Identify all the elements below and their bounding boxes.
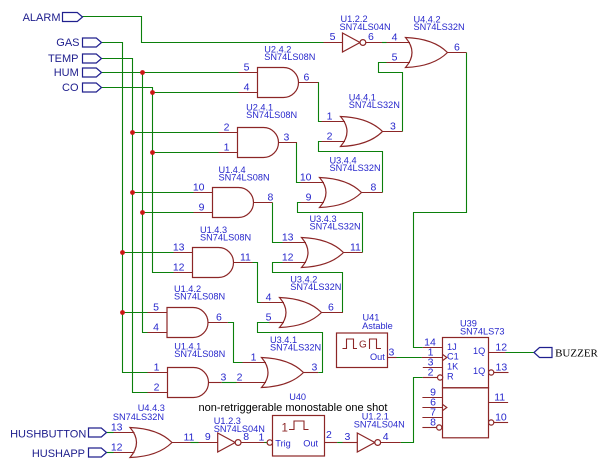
svg-text:U40: U40 (289, 392, 306, 402)
svg-text:13: 13 (496, 362, 508, 374)
svg-text:2: 2 (428, 366, 434, 378)
svg-text:11: 11 (494, 392, 505, 404)
svg-text:6: 6 (304, 72, 310, 84)
svg-text:SN74LS32N: SN74LS32N (290, 282, 341, 292)
svg-text:1: 1 (154, 362, 160, 374)
svg-text:4: 4 (266, 292, 272, 304)
svg-text:SN74LS08N: SN74LS08N (246, 110, 297, 120)
svg-text:BUZZER: BUZZER (555, 348, 598, 360)
svg-text:3: 3 (344, 431, 350, 443)
svg-text:Out: Out (303, 439, 318, 449)
svg-text:non-retriggerable monostable o: non-retriggerable monostable one shot (199, 402, 388, 414)
svg-text:R: R (447, 372, 454, 382)
svg-text:6: 6 (368, 31, 374, 43)
svg-text:5: 5 (330, 31, 336, 43)
svg-text:C1: C1 (447, 352, 459, 362)
svg-text:11: 11 (184, 432, 195, 444)
svg-text:3: 3 (284, 132, 290, 144)
svg-text:SN74LS08N: SN74LS08N (264, 52, 315, 62)
svg-text:12: 12 (282, 252, 294, 264)
svg-text:HUSHBUTTON: HUSHBUTTON (10, 429, 86, 441)
svg-text:8: 8 (430, 417, 436, 429)
svg-text:12: 12 (495, 342, 507, 354)
svg-text:8: 8 (268, 192, 274, 204)
svg-text:Trig: Trig (275, 439, 290, 449)
svg-text:5: 5 (244, 62, 250, 74)
svg-text:2: 2 (326, 429, 332, 441)
svg-text:SN74LS32N: SN74LS32N (270, 342, 321, 352)
svg-text:3: 3 (389, 347, 395, 359)
svg-text:9: 9 (306, 192, 312, 204)
svg-text:4: 4 (153, 322, 159, 334)
svg-text:G: G (359, 340, 367, 351)
svg-text:1: 1 (258, 432, 264, 444)
svg-text:8: 8 (371, 182, 377, 194)
svg-text:2: 2 (237, 372, 243, 384)
svg-text:2: 2 (154, 382, 160, 394)
svg-text:1: 1 (327, 111, 333, 123)
svg-text:SN74LS32N: SN74LS32N (310, 221, 361, 231)
svg-text:2: 2 (327, 131, 333, 143)
svg-text:4: 4 (392, 32, 398, 44)
svg-text:12: 12 (173, 262, 185, 274)
svg-text:11: 11 (350, 242, 361, 254)
svg-text:2: 2 (224, 122, 230, 134)
svg-text:SN74LS32N: SN74LS32N (349, 100, 400, 110)
svg-text:13: 13 (111, 422, 123, 434)
svg-text:SN74LS08N: SN74LS08N (174, 291, 225, 301)
svg-text:Astable: Astable (362, 321, 393, 331)
svg-text:6: 6 (216, 312, 222, 324)
svg-text:10: 10 (193, 182, 205, 194)
svg-text:CO: CO (62, 82, 79, 94)
svg-text:11: 11 (240, 252, 251, 264)
svg-text:SN74LS08N: SN74LS08N (174, 349, 225, 359)
svg-text:9: 9 (205, 431, 211, 443)
svg-text:4: 4 (244, 82, 250, 94)
svg-text:SN74LS32N: SN74LS32N (113, 412, 164, 422)
svg-text:SN74LS08N: SN74LS08N (200, 232, 251, 242)
svg-text:TEMP: TEMP (48, 53, 79, 65)
svg-text:3: 3 (390, 121, 396, 133)
svg-text:9: 9 (199, 202, 205, 214)
svg-text:1: 1 (251, 352, 257, 364)
svg-text:Out: Out (370, 352, 385, 362)
svg-text:1Q: 1Q (473, 346, 485, 356)
svg-text:SN74LS08N: SN74LS08N (219, 172, 270, 182)
svg-text:6: 6 (454, 42, 460, 54)
svg-text:5: 5 (392, 52, 398, 64)
svg-text:5: 5 (266, 312, 272, 324)
svg-text:ALARM: ALARM (23, 12, 61, 24)
svg-text:GAS: GAS (56, 37, 79, 49)
svg-text:13: 13 (282, 232, 294, 244)
svg-text:HUM: HUM (54, 67, 79, 79)
svg-text:6: 6 (328, 302, 334, 314)
svg-text:3: 3 (312, 362, 318, 374)
svg-text:SN74LS32N: SN74LS32N (330, 163, 381, 173)
svg-text:SN74LS32N: SN74LS32N (414, 22, 465, 32)
svg-text:1Q: 1Q (473, 366, 485, 376)
svg-text:SN74LS04N: SN74LS04N (354, 420, 405, 430)
svg-text:5: 5 (153, 302, 159, 314)
svg-text:SN74LS73: SN74LS73 (460, 327, 504, 337)
svg-text:HUSHAPP: HUSHAPP (32, 448, 85, 460)
svg-text:10: 10 (300, 172, 312, 184)
svg-text:SN74LS04N: SN74LS04N (340, 22, 391, 32)
svg-text:1K: 1K (447, 362, 459, 372)
svg-text:1J: 1J (447, 342, 457, 352)
svg-text:4: 4 (383, 431, 389, 443)
svg-text:13: 13 (173, 242, 185, 254)
svg-text:SN74LS04N: SN74LS04N (214, 424, 265, 434)
svg-text:3: 3 (221, 372, 227, 384)
svg-text:10: 10 (495, 412, 507, 424)
svg-text:12: 12 (111, 442, 123, 454)
svg-text:1: 1 (224, 142, 230, 154)
svg-text:1: 1 (282, 422, 288, 434)
